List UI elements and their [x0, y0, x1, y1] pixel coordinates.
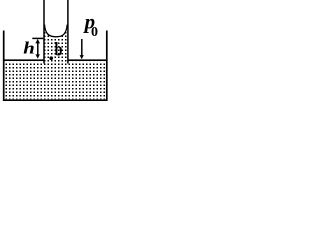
- meniscus arc: [45, 25, 68, 37]
- container vessel walls: [4, 31, 107, 101]
- p0 pressure arrow shaft: [81, 39, 83, 56]
- svg-text:h: h: [23, 39, 35, 57]
- h dimension arrow shaft: [37, 41, 39, 57]
- liquid surface line left segment: [4, 59, 43, 61]
- h dimension cap line: [32, 37, 43, 39]
- svg-text:b: b: [55, 38, 63, 60]
- svg-text:0: 0: [91, 25, 98, 40]
- liquid fill container: [5, 61, 107, 99]
- point b marker dot: [49, 56, 53, 60]
- p0 arrowhead down: [80, 55, 84, 59]
- h arrowhead up: [35, 39, 40, 44]
- liquid fill tube interior below meniscus: [45, 25, 68, 63]
- h arrowhead down: [36, 54, 40, 58]
- liquid surface line right segment: [68, 59, 106, 61]
- tube left wall: [43, 0, 45, 64]
- tube right wall: [67, 0, 69, 64]
